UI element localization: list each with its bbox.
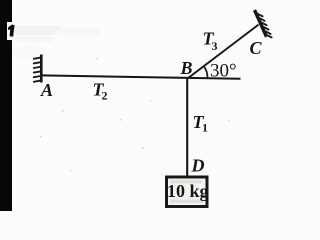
svg-text:1: 1 xyxy=(202,121,208,135)
erased numeral remnant xyxy=(8,25,15,37)
wall at A hatch marks xyxy=(34,58,41,82)
scan smudge band top-left (whited-out text ghost) xyxy=(14,26,62,35)
svg-text:C: C xyxy=(250,38,263,58)
svg-text:2: 2 xyxy=(102,89,108,103)
scan gutter black bar xyxy=(0,0,12,211)
svg-text:D: D xyxy=(191,156,205,176)
wire string T2 (horizontal from A to right end past B) xyxy=(42,75,241,78)
bar notch (erased area) xyxy=(7,22,12,40)
svg-text:30°: 30° xyxy=(210,61,237,82)
wall at A (vertical support line) xyxy=(40,55,43,83)
wall at C hatch marks xyxy=(256,13,271,37)
wall at C (slanted support bar) xyxy=(255,10,267,37)
mass box 10 kg xyxy=(167,177,208,207)
wire string T3 (diagonal from B to wall at C) xyxy=(189,25,259,78)
svg-text:3: 3 xyxy=(212,39,218,53)
svg-text:A: A xyxy=(40,80,53,100)
svg-text:B: B xyxy=(180,58,193,78)
svg-text:10 kg: 10 kg xyxy=(167,181,209,201)
angle arc at B xyxy=(204,66,208,78)
scan noise specks (decorative) xyxy=(40,58,229,171)
wire string T1 (vertical from B down to D / box) xyxy=(186,78,188,177)
